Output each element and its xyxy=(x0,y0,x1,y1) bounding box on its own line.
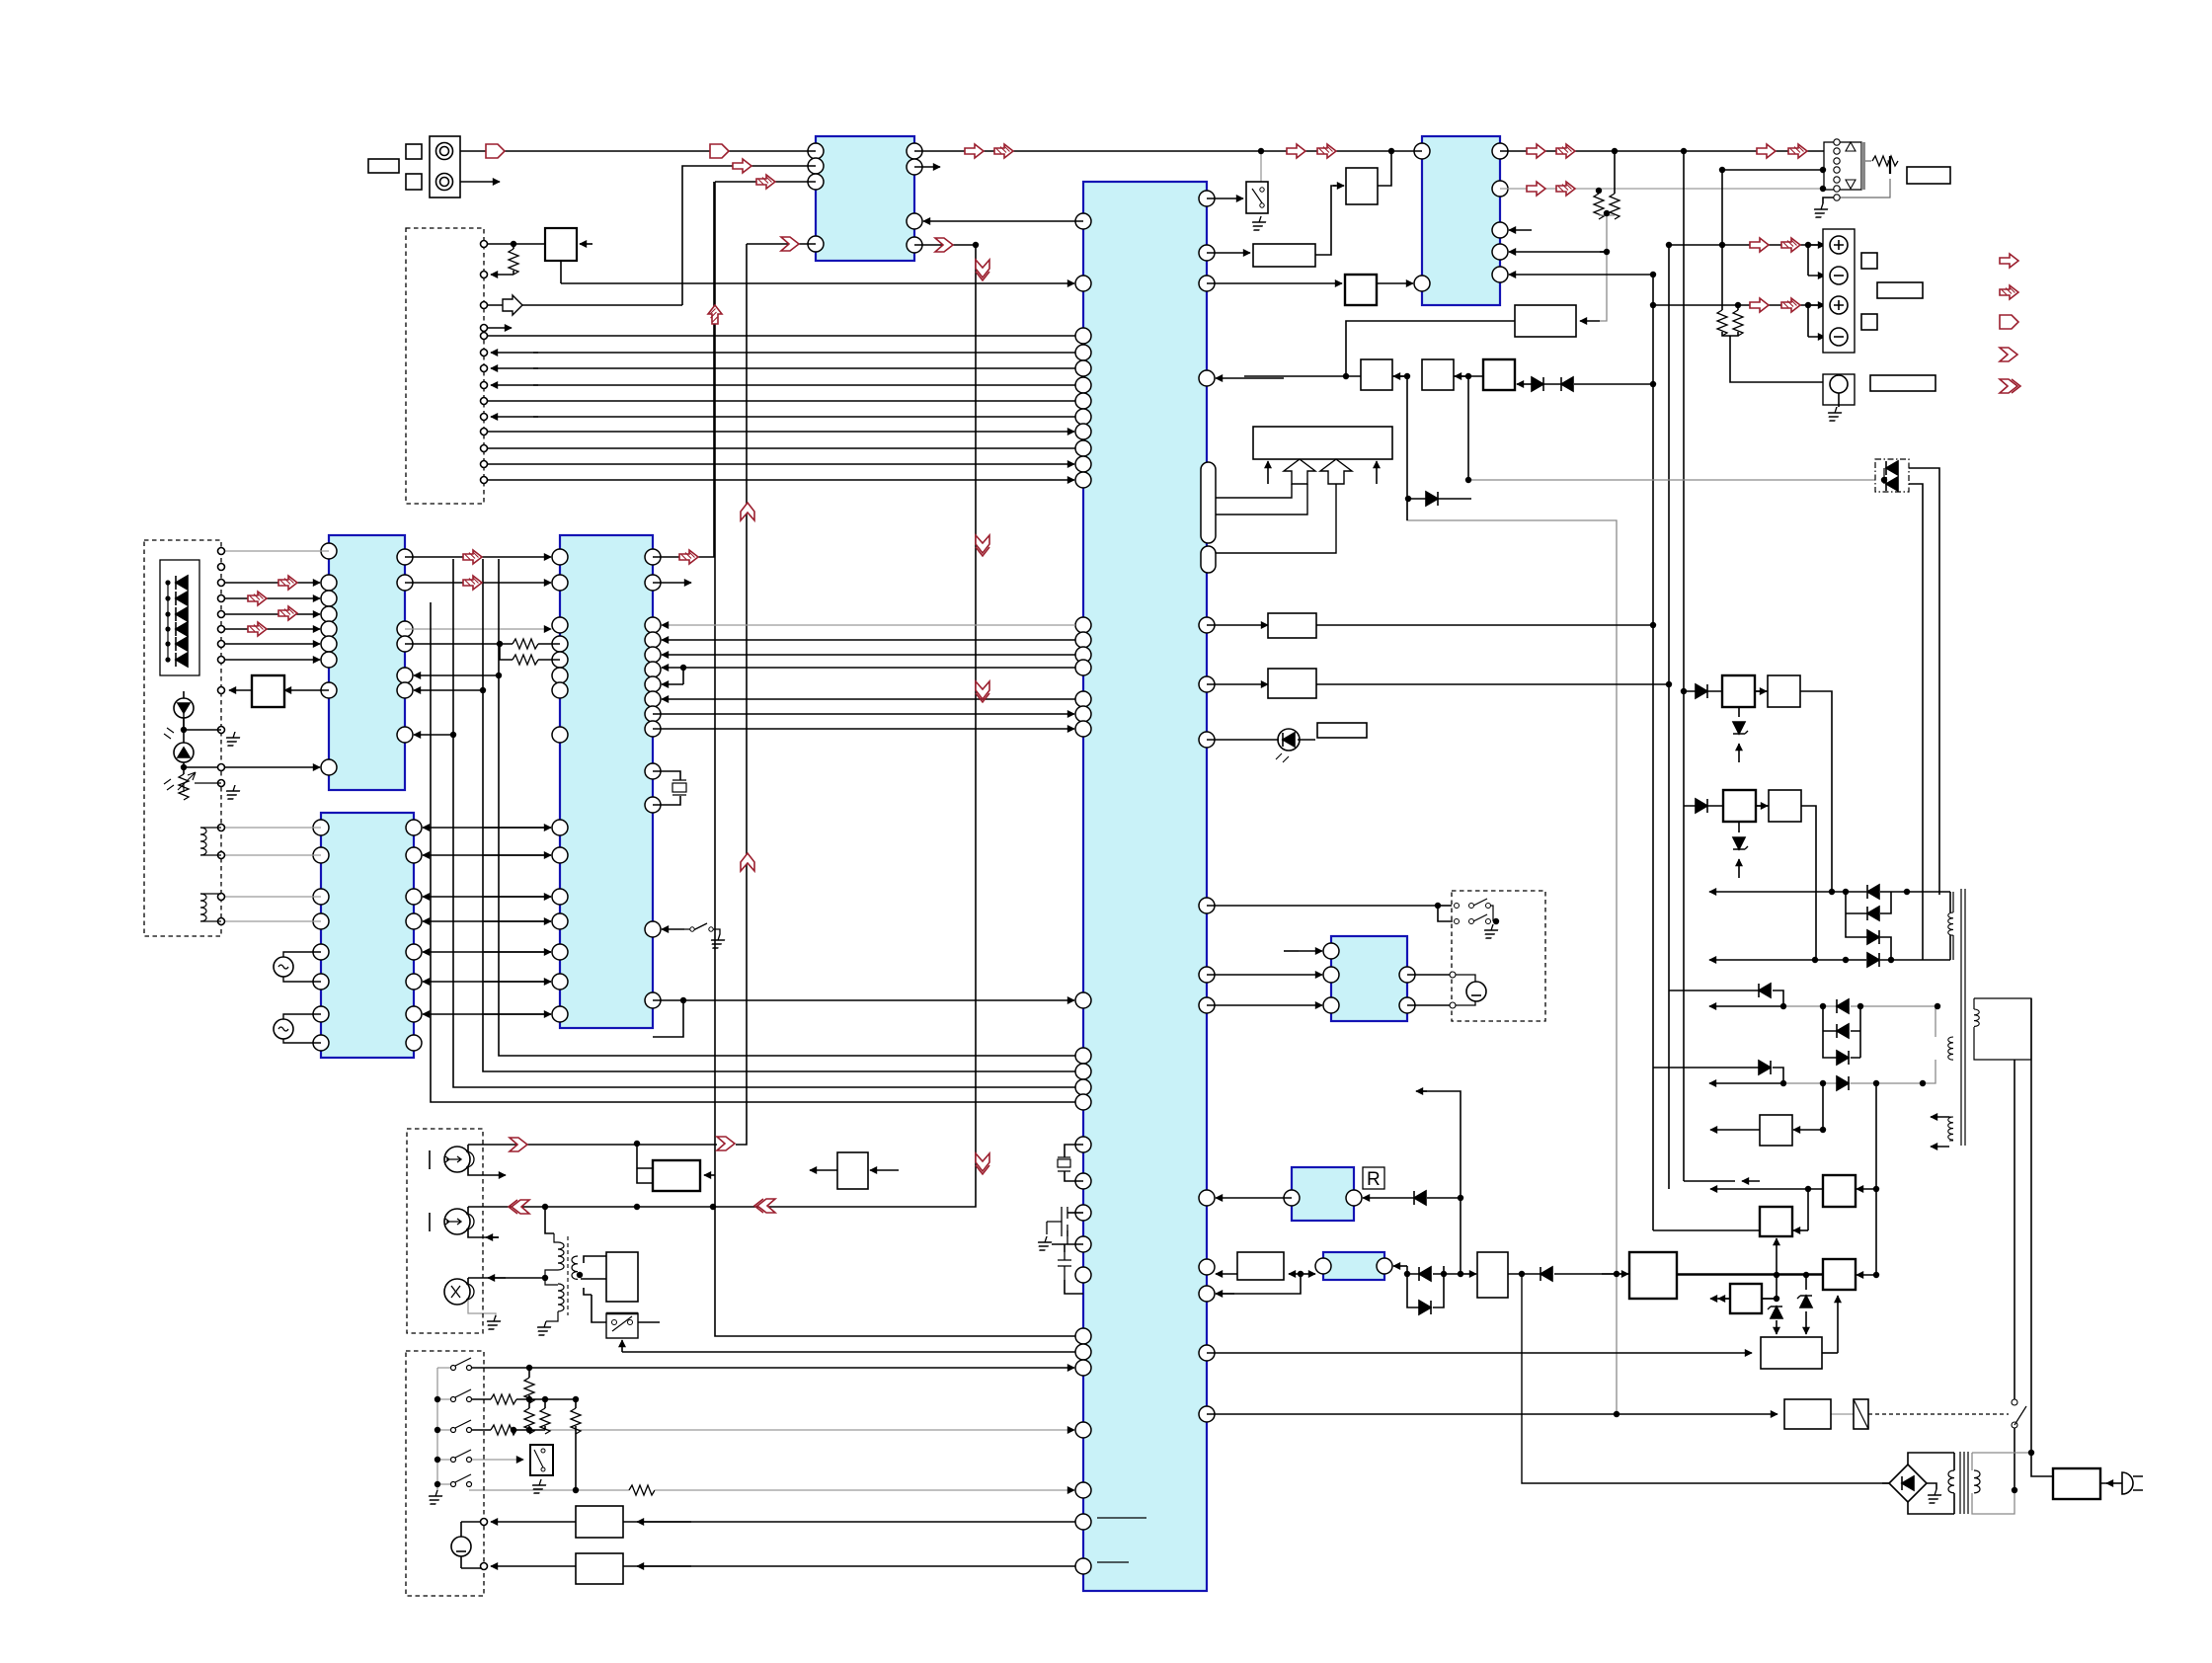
speaker terminal block xyxy=(1823,229,1855,353)
wire U3-U10 y738 xyxy=(653,728,1074,730)
signal gen G2 xyxy=(274,1019,293,1039)
open arrow black y309 xyxy=(503,295,522,315)
mic box1 xyxy=(576,1506,623,1538)
wire speaker L y248 xyxy=(1669,244,1832,246)
wire vertical x1674 xyxy=(1653,275,1760,1230)
variable resistor xyxy=(183,767,185,774)
wire AC mains path xyxy=(2014,998,2110,1490)
legend arrow hatch xyxy=(2000,285,2018,299)
wire key bus x443 xyxy=(436,1368,438,1490)
bridge rectifier xyxy=(1889,1465,1927,1502)
wire U3 pin y941 to power switch xyxy=(662,928,684,930)
function switches xyxy=(1455,904,1460,909)
wire sync box input stub xyxy=(580,243,592,245)
transformer T-PSU windings xyxy=(1948,1470,1980,1493)
wire standby row y1370 xyxy=(1207,1352,1752,1354)
wires capsule to arrows xyxy=(1216,484,1336,553)
wire reg box L row y1291 xyxy=(1677,1189,1876,1275)
wire U10 y917 to function switches xyxy=(1207,906,1453,921)
cap bar CN-R xyxy=(1889,156,1891,174)
wire mic row1 y1541 xyxy=(491,1521,576,1523)
wire jack2 stub xyxy=(468,1229,499,1237)
wire lower reg row y816 xyxy=(1684,806,1816,960)
connector CN-video top-left xyxy=(430,136,460,198)
arrow hatch LED rows xyxy=(278,576,297,590)
main sec3 winding xyxy=(1948,1117,1953,1140)
wire U6 to U10 y1213 xyxy=(1216,1197,1292,1199)
AC inlet box bold xyxy=(2053,1468,2100,1499)
wire gray display row y558 xyxy=(221,550,329,552)
ground at y793 xyxy=(223,785,242,799)
lower reg diode xyxy=(1696,799,1707,813)
wire photodetector row y777 xyxy=(184,766,320,768)
AC switch xyxy=(2012,1399,2017,1405)
key switches xyxy=(451,1358,472,1487)
wire U10 y633 to box G xyxy=(1207,624,1268,626)
crystal X2 on U3 xyxy=(653,771,680,805)
diode D1 right xyxy=(1532,377,1543,391)
wire U4 out y153 to CN-R xyxy=(1500,150,1832,152)
wire vertical x1426 xyxy=(1406,376,1408,520)
wire U10 y201 to SW-A xyxy=(1207,198,1243,199)
wire CN-R aux components xyxy=(1837,161,1890,198)
wire U3-U10 y1013 xyxy=(653,999,683,1001)
ground at y739 xyxy=(223,732,242,746)
wire vertical gray x1637 xyxy=(1407,499,1617,1414)
arrow chevron into x756 xyxy=(717,1137,735,1150)
wire rect2 row y1019 gray xyxy=(1709,1005,1783,1007)
legend arrow dchevron xyxy=(2000,379,2020,393)
IC U10 main system micro (tall center) xyxy=(1083,182,1207,1591)
pins U10 right xyxy=(1199,191,1215,206)
relay coil xyxy=(1854,1399,1868,1429)
wire U4 y278 from x1674 xyxy=(1509,274,1653,276)
box C bold xyxy=(1483,359,1515,390)
arrow open+hatch gray y191 xyxy=(1527,182,1545,196)
wire rect row y972 xyxy=(1709,959,1815,961)
wire rect2 bridge xyxy=(1823,1006,1860,1058)
wire IR LED y749 xyxy=(1207,739,1315,741)
IC U4 output block top-right xyxy=(1422,136,1500,305)
wire box D feed from bus xyxy=(1346,321,1515,376)
diode into U6 xyxy=(1414,1191,1426,1205)
wire CN1 pin1 row xyxy=(488,243,545,245)
wire speaker L minus branch xyxy=(1807,245,1809,276)
legend arrow chevron xyxy=(2000,348,2017,361)
wire CN1 pin3 row to node B xyxy=(484,304,682,306)
IC U1 video block top-left xyxy=(816,136,914,261)
ground CN-R xyxy=(1811,203,1830,217)
upper reg diode xyxy=(1696,684,1707,698)
box L reg bold xyxy=(1823,1259,1856,1290)
dashed AV jacks box xyxy=(407,1129,483,1333)
wire node B vertical x691 xyxy=(682,166,816,305)
pins U4 xyxy=(1414,143,1430,159)
wire U10-U5 y1018 xyxy=(1207,1004,1322,1006)
wire mech switch rows y1385 xyxy=(469,1367,529,1369)
wire rect row y903 xyxy=(1709,891,1832,893)
wire sec3 arrows xyxy=(1931,1116,1949,1118)
arrow open+hatch to CN-R xyxy=(1757,144,1776,158)
wire U3-U10 y708 xyxy=(662,698,1075,700)
box P2 xyxy=(1768,675,1800,707)
arrow chevron jack1 xyxy=(510,1138,527,1151)
photocoupler dash-dot box xyxy=(1875,459,1909,492)
diode pair U7 xyxy=(1419,1267,1431,1281)
switch SW-A with ground xyxy=(1246,182,1268,213)
wire U3-U10 y676 branch y693 xyxy=(683,668,1075,684)
arrow hatch U3 y584 xyxy=(463,576,482,590)
arrow dchevron down x988 mid1 xyxy=(976,535,989,556)
wire gray U4 y191 to CN-R xyxy=(1500,188,1832,190)
function switch dashed box xyxy=(1452,891,1545,1021)
wire gray drop to mute switch xyxy=(1260,151,1262,182)
resistor headphone L xyxy=(1717,310,1727,336)
relay box xyxy=(1784,1399,1831,1429)
wire reg box K row y1246 xyxy=(1807,1189,1809,1230)
wire U2 y699 from x489 xyxy=(414,689,483,691)
main transformer core x1987 xyxy=(1961,889,1965,1146)
wire tuner coil rows gray xyxy=(221,828,321,921)
driver box bold xyxy=(653,1160,700,1191)
wire U3-U10 y663 xyxy=(662,654,1075,656)
jack J3 xyxy=(444,1279,470,1305)
ground jack3 xyxy=(484,1315,503,1329)
transformer T-PSU core xyxy=(1960,1452,1968,1514)
wire branch y668 with resistor xyxy=(500,644,513,660)
wire U3 out y564 hatched to x723 xyxy=(653,182,714,557)
wire jack1 stub xyxy=(468,1167,484,1175)
wire x1479 to box E xyxy=(1461,1273,1476,1275)
wire jack2 row y1222 xyxy=(468,1207,713,1214)
arrow dchevron down x988 mid2 xyxy=(976,681,989,702)
label rect CN-R xyxy=(1907,167,1950,184)
arrow hatch y184 xyxy=(756,175,775,189)
wire jack3 row y1291 xyxy=(468,1278,545,1285)
pins U2 xyxy=(321,543,337,559)
LED array box xyxy=(160,560,199,675)
mic box2 xyxy=(576,1553,623,1584)
box B2 xyxy=(1346,168,1378,204)
svg-text:R: R xyxy=(1367,1169,1381,1190)
wire mic row2 y1586 xyxy=(491,1565,576,1567)
switch SWF box xyxy=(606,1313,638,1338)
arrow open+hatch before U4 xyxy=(1287,144,1305,158)
mid box arrows xyxy=(837,1152,868,1189)
signal gen G1 xyxy=(274,957,293,977)
wire speaker R y309 xyxy=(1653,304,1832,306)
wire diode y505 xyxy=(1408,498,1471,500)
wire speaker R minus branch xyxy=(1807,305,1809,337)
crystal X2 body xyxy=(672,783,686,792)
box H xyxy=(1268,669,1316,698)
wire key box row y699 xyxy=(229,689,252,691)
zener Z1 xyxy=(1733,722,1748,734)
zener Z2 xyxy=(1733,837,1748,849)
wire vertical x1705 xyxy=(1683,151,1685,1181)
wire U4 stub y233 xyxy=(1509,229,1532,231)
wire stub from video connector out xyxy=(460,181,500,183)
box I reg xyxy=(1760,1115,1792,1146)
wire transformer right to box F xyxy=(581,1256,606,1279)
wire vertical x1690 xyxy=(1668,245,1670,1189)
AC plug xyxy=(2122,1472,2133,1494)
label rect HP xyxy=(1870,375,1935,391)
wire U2 y744 from x459 xyxy=(414,734,453,736)
wire LED rows to U2 xyxy=(221,582,320,584)
wire row y1448 with resistor xyxy=(469,1429,491,1431)
wire CN-R ground stub xyxy=(1823,198,1837,203)
wire key row y1509 gray with resistor xyxy=(469,1489,629,1491)
IR LED xyxy=(1278,729,1300,751)
wire box B3 to U4 xyxy=(1377,282,1413,284)
wire standby to switch bottom xyxy=(622,1351,1075,1353)
arrow dchevron left y1222 xyxy=(754,1199,775,1213)
wire bridge ground xyxy=(1927,1483,1936,1489)
arrow hatch U3 y559 xyxy=(463,550,482,564)
box P3 bold xyxy=(1723,790,1756,822)
wire verticals x436 x458 x489 x506 stair bus xyxy=(431,559,1075,1102)
resistor headphone R xyxy=(1733,310,1743,336)
ground bridge xyxy=(1925,1489,1943,1503)
wire vertical x1487 xyxy=(1467,376,1469,480)
jack J1 xyxy=(444,1147,470,1172)
wire U3-U10 y633 gray xyxy=(662,624,1075,626)
IC U7 reset xyxy=(1323,1252,1384,1280)
IC U5 memory xyxy=(1331,936,1407,1021)
pins U7 xyxy=(1315,1258,1331,1274)
wire U2-U3 y564 xyxy=(405,556,551,558)
R logo box xyxy=(1363,1167,1384,1189)
wire relay row y1432 xyxy=(1207,1413,1617,1415)
wire U10-U5 y987 xyxy=(1207,974,1322,976)
wire regulator feedback x1861 xyxy=(1822,1352,1838,1354)
wire gray y486 to photocoupler xyxy=(1468,479,1875,481)
arrow small up 2 xyxy=(1376,461,1378,484)
key switch box bold xyxy=(530,1445,553,1475)
wire branch y1013 down-left xyxy=(653,1000,683,1037)
box B xyxy=(1422,359,1454,390)
arrow dchevron left jack2 xyxy=(509,1200,529,1214)
pins U1 xyxy=(808,143,824,159)
arrow dchevron down x988 xyxy=(976,260,989,280)
wire reg box I row y1144 xyxy=(1822,1083,1824,1130)
wire diode to U6 xyxy=(1363,1197,1414,1199)
wire box B2 to top bus xyxy=(1378,151,1391,186)
box M bold xyxy=(1730,1284,1762,1313)
wire box B arrow xyxy=(1455,375,1468,377)
arrow open+hatch after U1 xyxy=(965,144,984,158)
wire U5 to battery terminals xyxy=(1407,975,1453,1005)
wire U7 right diode pair xyxy=(1393,1265,1407,1267)
arrow open y168 xyxy=(733,159,751,173)
wire CN-R row y172 xyxy=(1722,169,1832,171)
box W reset src xyxy=(1237,1252,1284,1280)
wire rect bridge1 xyxy=(1846,892,1891,960)
wire vertical x1744 xyxy=(1721,170,1723,310)
pins U3 right xyxy=(645,549,661,565)
wire video-in to U1 pin1 xyxy=(460,150,816,152)
wire U1 y248 to node x988 xyxy=(713,245,976,1207)
arrow dchevron down x988 lower xyxy=(976,1153,989,1174)
wire y184 into U1 xyxy=(715,181,816,183)
wire LED chain xyxy=(184,708,221,730)
pins U6 xyxy=(1284,1190,1300,1206)
wire box C right diodes xyxy=(1517,383,1532,385)
box L2 bold xyxy=(1629,1252,1677,1299)
arrow chevron up x756 lower xyxy=(741,853,754,871)
relay driver box xyxy=(1761,1337,1822,1369)
wire row y1417 with resistor xyxy=(469,1398,491,1400)
wire node x1479 xyxy=(1417,1091,1461,1274)
arrow small up 1 xyxy=(1267,461,1269,484)
ground key bus xyxy=(426,1490,444,1504)
wire diode D12 into node xyxy=(1602,1273,1628,1275)
wire relay coil link gray xyxy=(1831,1413,1854,1415)
wire U1 stub y169 xyxy=(914,166,940,168)
wire switch SWF out xyxy=(638,1321,660,1323)
MOSFET Q1 wiring xyxy=(1052,1213,1083,1294)
wire box M left arrow xyxy=(1718,1298,1777,1300)
wire transformer right lower to switch xyxy=(584,1288,606,1322)
wire U10 y256 to box B1 xyxy=(1207,252,1250,254)
wire U3-U10 y648 xyxy=(662,639,1075,641)
key box bold xyxy=(252,675,284,707)
tape transformer xyxy=(567,1236,569,1315)
wire U10 y287 to box B3 xyxy=(1207,282,1342,284)
pins U3 left xyxy=(552,549,568,565)
wire transformer primary loop xyxy=(1972,1453,2031,1514)
U10 internal pin lines xyxy=(1097,1518,1146,1562)
pins U5 xyxy=(1323,943,1339,959)
small square S1 xyxy=(406,144,422,159)
connector CN-R with hatch xyxy=(1824,142,1861,190)
big open arrow up 2 xyxy=(1320,459,1352,484)
small square S2 xyxy=(406,174,422,190)
wire resistor pair x1619/x1635 xyxy=(1598,189,1600,194)
arrow chevron y248 xyxy=(935,238,953,252)
label rect L1 xyxy=(368,159,399,173)
arrow speaker L pair xyxy=(1750,238,1769,252)
label square SP1 xyxy=(1861,253,1877,269)
dashed key box xyxy=(406,1351,484,1596)
box P4 xyxy=(1769,790,1801,822)
crystal X1 body xyxy=(1058,1159,1070,1167)
wire U3 stub y590 xyxy=(653,582,691,584)
resistor CN-R xyxy=(1872,156,1898,166)
box G xyxy=(1268,613,1316,638)
diode D2 left xyxy=(1561,377,1573,391)
wire U2 y684 from x505 xyxy=(414,674,499,676)
IC U2b tuner block xyxy=(321,813,414,1058)
wire zener stub upper xyxy=(1738,707,1740,717)
box B3 bold xyxy=(1345,275,1377,305)
wire CN1 pin2 row xyxy=(491,274,513,276)
arrow chevron into U1 y247 xyxy=(781,237,799,251)
LED D-dn xyxy=(174,743,194,762)
pins U2b xyxy=(313,820,329,835)
mic circle xyxy=(451,1537,471,1556)
box J reg bold xyxy=(1823,1175,1856,1207)
pins U10 left xyxy=(1075,213,1091,229)
arrow hatch U3 out top xyxy=(679,550,698,564)
box B1 xyxy=(1253,244,1315,267)
wire transformer secondary left xyxy=(1882,1453,1954,1514)
box P1 bold xyxy=(1722,675,1755,707)
tuner coil 2 xyxy=(200,894,206,921)
box F record xyxy=(606,1252,638,1302)
jack J2 xyxy=(444,1209,470,1234)
wire U2b-U3 rows xyxy=(423,827,551,829)
wire zener chains x1799 x1829 xyxy=(1762,1275,1777,1299)
wire tape transformer tap x552 xyxy=(545,1207,554,1233)
wire chevron feed x756 xyxy=(736,244,816,1145)
diode D3 on y503 xyxy=(1426,492,1438,506)
MOSFET Q1 xyxy=(1047,1207,1067,1236)
arrow speaker R pair xyxy=(1750,298,1769,312)
LED D-up xyxy=(174,698,194,718)
wire diode feed y1081 xyxy=(1653,1068,1783,1083)
power switch at U3 xyxy=(684,923,720,934)
box D xyxy=(1515,305,1576,337)
arrow pent y153a xyxy=(486,144,505,158)
box A xyxy=(1361,359,1392,390)
label rect IR xyxy=(1317,723,1367,738)
wire U1 out y153 to U4 xyxy=(914,150,1422,152)
wire zener stub lower xyxy=(1738,822,1740,832)
diode D12 xyxy=(1540,1267,1552,1281)
wire vertical x1760 xyxy=(1737,305,1739,310)
wire stub x724 to driver box xyxy=(704,1174,715,1176)
wire upper reg row y700 xyxy=(1684,691,1832,892)
legend arrow pent xyxy=(2000,315,2018,329)
wire rect2 row y1097 gray xyxy=(1709,1082,1783,1084)
label rect SP2 xyxy=(1877,282,1923,298)
wire CN1 pin4 stub xyxy=(484,327,512,329)
emission arrows xyxy=(164,728,174,790)
wire jack3 ground lead xyxy=(468,1300,496,1317)
arrow chevron up x756 xyxy=(741,503,754,520)
wire reset box row y1290 xyxy=(1216,1273,1237,1275)
wire long vertical x724 xyxy=(715,182,1075,1336)
IC U3 front controller (tall) xyxy=(560,535,653,1028)
arrow hatch up x724 xyxy=(708,305,722,324)
big open arrow up 1 xyxy=(1284,459,1315,484)
headphone jack box xyxy=(1823,374,1855,405)
wire driver box feed x645 xyxy=(637,1144,653,1183)
wire U4 y255 loop to box D xyxy=(1600,251,1607,253)
wire headphone feed xyxy=(1722,332,1829,382)
tuner coil 1 xyxy=(200,828,206,855)
label square SP3 xyxy=(1861,314,1877,330)
IC U2 display driver xyxy=(329,535,405,790)
wire U2-U3 y637 gray xyxy=(405,628,551,630)
main primary winding xyxy=(1974,1009,1979,1026)
wire photocoupler outputs xyxy=(1909,468,1939,960)
arrow open+hatch U4 out xyxy=(1527,144,1545,158)
IC U6 remote receiver xyxy=(1292,1167,1354,1221)
resistor ladder verticals xyxy=(528,1368,530,1378)
wire top bus y381 xyxy=(1244,375,1483,377)
box sync separator xyxy=(545,228,577,261)
wire U3-U10 y723 xyxy=(653,713,1074,715)
wire box A arrow xyxy=(1393,375,1407,377)
arrow pent y153b xyxy=(710,144,729,158)
wire U10 to U1 y224 xyxy=(923,220,1083,222)
crystal X1 on U10 xyxy=(1065,1145,1083,1181)
wire vertical x1541 xyxy=(1522,1274,1889,1483)
wire U10-U5 y963 arrow xyxy=(1299,950,1322,952)
